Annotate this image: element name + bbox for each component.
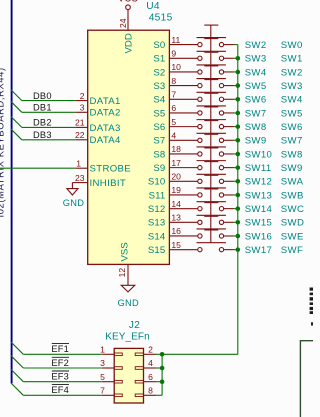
svg-text:SW12: SW12: [245, 177, 273, 188]
svg-text:SW5: SW5: [245, 81, 267, 92]
pin 10 S2: [153, 62, 198, 78]
ground GND (INHIBIT): [63, 183, 85, 208]
switch SW (row S5): [197, 93, 226, 115]
wire switch S0 to common: [224, 44, 238, 46]
junction (row S2): [236, 70, 241, 75]
label DB2: [33, 118, 52, 128]
label SWF (hex): [281, 245, 303, 256]
pin 5 S6: [153, 117, 198, 133]
svg-text:STROBE: STROBE: [90, 164, 132, 175]
svg-text:SW7: SW7: [281, 136, 303, 147]
label DB3: [33, 130, 52, 140]
pin 1 J2 left: [100, 345, 122, 356]
switch SW (row S11): [197, 175, 226, 197]
pin 6 J2 right: [135, 372, 156, 383]
svg-text:SW9: SW9: [245, 136, 267, 147]
wire J2 pin 2 to vertical: [156, 353, 162, 355]
svg-text:SWE: SWE: [281, 231, 304, 242]
svg-text:S7: S7: [153, 136, 165, 147]
junction (row S15): [236, 247, 241, 252]
label SW9 (hex): [281, 163, 303, 174]
svg-text:SW8: SW8: [281, 149, 303, 160]
wire DB3: [22, 139, 75, 141]
svg-text:S6: S6: [153, 122, 165, 133]
pin 18 S8: [153, 144, 198, 160]
junction (row S4): [236, 97, 241, 102]
svg-text:DB0: DB0: [33, 91, 52, 101]
switch SW (row S9): [197, 148, 226, 170]
svg-text:7: 7: [100, 386, 105, 396]
svg-text:SW4: SW4: [281, 95, 303, 106]
wire DB2: [22, 126, 75, 128]
pin 24 number: [118, 18, 128, 28]
label SW8 (hex): [281, 149, 303, 160]
junction (row S13): [236, 220, 241, 225]
svg-text:SW15: SW15: [245, 218, 273, 229]
junction (row S1): [236, 56, 241, 61]
svg-text:15: 15: [171, 240, 181, 250]
pin 6 S5: [153, 103, 198, 119]
value 4515: [149, 13, 173, 24]
switch SW (row S0): [197, 25, 226, 47]
svg-text:SW2: SW2: [281, 67, 303, 78]
label SWC (hex): [281, 204, 304, 215]
wire switch S9 to common: [224, 167, 238, 169]
label SW2 (hex): [281, 67, 303, 78]
svg-text:2: 2: [80, 91, 85, 101]
reference J2: [129, 320, 140, 331]
svg-text:U4: U4: [146, 1, 160, 12]
wire switch S12 to common: [224, 208, 238, 210]
switch SW (row S10): [197, 162, 226, 184]
svg-text:SW0: SW0: [281, 40, 303, 51]
svg-text:SW2: SW2: [245, 40, 267, 51]
switch SW (row S1): [197, 39, 226, 61]
svg-text:SW1: SW1: [281, 54, 303, 65]
svg-text:VDD: VDD: [124, 33, 135, 53]
svg-text:EF4: EF4: [51, 385, 69, 395]
wire switch S1 to common: [224, 57, 238, 59]
label SW7: [245, 108, 267, 119]
wire J2 right vertical: [161, 354, 163, 395]
svg-text:EF3: EF3: [51, 372, 69, 382]
svg-text:SW3: SW3: [281, 81, 303, 92]
switch SW (row S6): [197, 107, 226, 129]
svg-text:10: 10: [171, 62, 181, 72]
junction (row S9): [236, 165, 241, 170]
switch SW (row S3): [197, 66, 226, 88]
svg-text:12: 12: [117, 268, 127, 278]
pin 16 S14: [148, 226, 198, 242]
switch SW (row S14): [197, 216, 226, 238]
pin 15 S15: [148, 240, 198, 256]
svg-text:11: 11: [171, 35, 180, 45]
label SW13: [245, 190, 273, 201]
junction (row S7): [236, 138, 241, 143]
wire switch S11 to common: [224, 194, 238, 196]
svg-text:18: 18: [171, 144, 181, 154]
label SW10: [245, 149, 273, 160]
svg-text:DB3: DB3: [33, 130, 52, 140]
wire EF3: [23, 381, 101, 383]
label EF3 (overline): [51, 371, 69, 382]
svg-text:5: 5: [171, 117, 176, 127]
wire switch S15 to common: [224, 249, 238, 251]
op IC U4 4515 body: [88, 30, 170, 264]
svg-text:8: 8: [148, 386, 153, 396]
svg-text:SW9: SW9: [281, 163, 303, 174]
sheet outline (bottom right): [300, 341, 313, 417]
wire switch S13 to common: [224, 221, 238, 223]
wire DB1: [22, 111, 75, 113]
svg-text:7: 7: [171, 89, 176, 99]
wire switch S4 to common: [224, 98, 238, 100]
svg-text:6: 6: [171, 103, 176, 113]
label DB1: [33, 103, 52, 113]
pin 9 S1: [153, 48, 198, 64]
pin 20 S10: [148, 172, 198, 188]
reference U4: [146, 1, 160, 12]
svg-text:SW5: SW5: [281, 108, 303, 119]
bus entry EF3: [11, 369, 23, 381]
svg-text:SW4: SW4: [245, 67, 267, 78]
switch SW (row S8): [197, 134, 226, 156]
label SWB (hex): [281, 190, 304, 201]
label SW2: [245, 40, 267, 51]
switch SW (row S13): [197, 203, 226, 225]
label SW6 (hex): [281, 122, 303, 133]
junction (row S12): [236, 206, 241, 211]
junction (row S10): [236, 179, 241, 184]
svg-text:SW6: SW6: [281, 122, 303, 133]
bus entry DB0: [11, 90, 22, 101]
svg-text:17: 17: [171, 158, 181, 168]
pin 23 INHIBIT: [72, 173, 126, 189]
svg-text:4: 4: [171, 130, 176, 140]
pin 1 STROBE: [75, 158, 131, 174]
wire EF1: [23, 353, 101, 355]
wire J2 pin 4 to vertical: [156, 367, 162, 369]
pin 3 J2 left: [100, 358, 122, 369]
bus entry DB3: [11, 129, 22, 140]
label EF1 (overline): [51, 344, 69, 355]
label SWA (hex): [281, 177, 304, 188]
junction (row S14): [236, 234, 241, 239]
junction (row S6): [236, 124, 241, 129]
svg-text:DATA2: DATA2: [90, 108, 121, 119]
svg-text:KEY_EFn: KEY_EFn: [105, 331, 150, 342]
svg-text:S4: S4: [153, 95, 165, 106]
wire switch S10 to common: [224, 180, 238, 182]
svg-text:S0: S0: [153, 40, 165, 51]
label SW14: [245, 204, 273, 215]
pin 2 J2 right: [135, 345, 156, 356]
label SW5: [245, 81, 267, 92]
label SW5 (hex): [281, 108, 303, 119]
svg-text:SWF: SWF: [281, 245, 303, 256]
wire J2 pin 6 to vertical: [156, 381, 162, 383]
wire EF2: [23, 367, 101, 369]
svg-text:SWC: SWC: [281, 204, 304, 215]
wire switch common vertical: [237, 45, 239, 355]
switch SW (row S4): [197, 80, 226, 102]
bus entry DB1: [11, 101, 22, 112]
label SW16: [245, 231, 273, 242]
pin 22 DATA4: [75, 130, 121, 146]
svg-text:4: 4: [148, 358, 153, 368]
svg-text:4515: 4515: [149, 13, 173, 24]
svg-text:DATA1: DATA1: [90, 96, 121, 107]
pin 3 DATA2: [75, 103, 121, 119]
junction J2 pin 2: [160, 352, 165, 357]
svg-text:GND: GND: [118, 298, 140, 308]
svg-text:DATA4: DATA4: [90, 135, 122, 146]
text fragments right edge: [310, 288, 313, 326]
svg-text:22: 22: [75, 130, 85, 140]
svg-text:S15: S15: [148, 245, 165, 256]
junction (row S5): [236, 111, 241, 116]
svg-text:1: 1: [100, 345, 105, 355]
label SW15: [245, 218, 273, 229]
svg-text:S12: S12: [148, 204, 165, 215]
bus entry EF1: [11, 342, 23, 354]
label EF4 (overline): [51, 385, 69, 396]
svg-text:SW6: SW6: [245, 95, 267, 106]
svg-text:6: 6: [148, 372, 153, 382]
label SW3 (hex): [281, 81, 303, 92]
label SW12: [245, 177, 273, 188]
pin 7 J2 left: [100, 386, 122, 397]
svg-text:GND: GND: [63, 198, 85, 208]
label SW3: [245, 54, 267, 65]
svg-text:23: 23: [75, 173, 85, 183]
label DB0: [33, 91, 52, 101]
svg-text:5: 5: [100, 372, 105, 382]
label SW4: [245, 67, 267, 78]
label EF2 (overline): [51, 357, 69, 368]
svg-text:SW11: SW11: [245, 163, 272, 174]
junction (row S3): [236, 83, 241, 88]
pin 5 J2 left: [100, 372, 122, 383]
svg-text:SW8: SW8: [245, 122, 267, 133]
svg-text:16: 16: [171, 226, 181, 236]
svg-text:SW10: SW10: [245, 149, 273, 160]
svg-text:2: 2: [148, 345, 153, 355]
junction (row S8): [236, 152, 241, 157]
svg-text:13: 13: [171, 213, 181, 223]
switch SW (row S7): [197, 121, 226, 143]
svg-text:SW16: SW16: [245, 231, 273, 242]
svg-text:DATA3: DATA3: [90, 123, 121, 134]
wire switch S8 to common: [224, 153, 238, 155]
pin 4 S7: [153, 130, 198, 146]
svg-text:SWB: SWB: [281, 190, 304, 201]
svg-text:14: 14: [171, 199, 181, 209]
wire switch S5 to common: [224, 112, 238, 114]
svg-text:I02(MATRIX KEYBOARD,RX44): I02(MATRIX KEYBOARD,RX44): [0, 67, 6, 217]
svg-text:VSS: VSS: [120, 242, 131, 261]
wire switch S3 to common: [224, 85, 238, 87]
wire EF4: [23, 394, 101, 396]
svg-text:1: 1: [76, 158, 81, 168]
pin 8 S3: [153, 76, 198, 92]
svg-text:SW13: SW13: [245, 190, 273, 201]
junction J2 pin 6: [160, 379, 165, 384]
switch SW (row S15): [197, 230, 226, 252]
label SW0 (hex): [281, 40, 303, 51]
svg-text:3: 3: [100, 358, 105, 368]
wire switch S14 to common: [224, 235, 238, 237]
connector J2 body: [114, 348, 143, 403]
wire common to J2 pin2: [162, 353, 238, 355]
switch SW (row S2): [197, 52, 226, 74]
svg-text:SWD: SWD: [281, 218, 304, 229]
svg-text:9: 9: [171, 48, 176, 58]
label SW17: [245, 245, 273, 256]
svg-text:VCC: VCC: [118, 0, 138, 3]
pin 8 J2 right: [135, 386, 156, 397]
wire switch S2 to common: [224, 71, 238, 73]
svg-text:SW3: SW3: [245, 54, 267, 65]
svg-text:3: 3: [80, 103, 85, 113]
pin 12 VSS: [117, 242, 130, 285]
svg-text:SWA: SWA: [281, 177, 304, 188]
label SW6: [245, 95, 267, 106]
svg-text:S14: S14: [148, 231, 166, 242]
label SW7 (hex): [281, 136, 303, 147]
pin 19 S11: [149, 185, 198, 201]
svg-text:S8: S8: [153, 149, 165, 160]
pin name VDD: [124, 33, 135, 53]
svg-text:S10: S10: [148, 177, 165, 188]
svg-text:21: 21: [75, 118, 85, 128]
label SW4 (hex): [281, 95, 303, 106]
label SWD (hex): [281, 218, 304, 229]
svg-text:S1: S1: [153, 54, 165, 65]
svg-text:SW7: SW7: [245, 108, 267, 119]
junction J2 pin 4: [160, 366, 165, 371]
svg-text:20: 20: [171, 172, 181, 182]
svg-text:S5: S5: [153, 108, 165, 119]
ground GND (VSS): [118, 285, 140, 308]
pin 14 S12: [148, 199, 198, 215]
label SW1 (hex): [281, 54, 303, 65]
pin 11 S0: [153, 35, 198, 51]
wire DB0: [22, 100, 75, 102]
wire switch S6 to common: [224, 126, 238, 128]
bus entry EF2: [11, 356, 23, 368]
pin 7 S4: [153, 89, 198, 105]
wire switch S7 to common: [224, 139, 238, 141]
label SWE (hex): [281, 231, 304, 242]
svg-text:DB1: DB1: [33, 103, 52, 113]
wire J2 pin 8 to vertical: [156, 394, 162, 396]
pin 4 J2 right: [135, 358, 156, 369]
wire STROBE to left: [0, 167, 75, 169]
junction (row S11): [236, 193, 241, 198]
pin 17 S9: [153, 158, 198, 174]
svg-text:DB2: DB2: [33, 118, 52, 128]
svg-text:EF1: EF1: [51, 344, 69, 354]
bus label I02(MATRIX KEYBOARD,RX44): [0, 67, 6, 217]
svg-text:EF2: EF2: [51, 358, 69, 368]
label SW11: [245, 163, 272, 174]
bus entry DB2: [11, 116, 22, 127]
svg-text:INHIBIT: INHIBIT: [90, 178, 127, 189]
svg-text:S2: S2: [153, 67, 165, 78]
svg-text:SW17: SW17: [245, 245, 273, 256]
svg-text:S13: S13: [148, 218, 165, 229]
pin 21 DATA3: [75, 118, 121, 134]
bus entry EF4: [11, 383, 23, 395]
value KEY_EFn: [105, 331, 150, 342]
label SW8: [245, 122, 267, 133]
pin 2 DATA1: [75, 91, 121, 107]
pin 13 S13: [148, 213, 198, 229]
svg-text:S9: S9: [153, 163, 165, 174]
svg-text:8: 8: [171, 76, 176, 86]
svg-text:19: 19: [171, 185, 181, 195]
svg-text:S11: S11: [149, 190, 166, 201]
switch SW (row S12): [197, 189, 226, 211]
svg-text:J2: J2: [129, 320, 140, 331]
power VCC (pin 24 VDD): [118, 0, 138, 30]
svg-text:24: 24: [118, 18, 128, 28]
svg-text:S3: S3: [153, 81, 165, 92]
label SW9: [245, 136, 267, 147]
svg-text:SW14: SW14: [245, 204, 273, 215]
bus I02 (vertical data bus): [11, 0, 13, 383]
